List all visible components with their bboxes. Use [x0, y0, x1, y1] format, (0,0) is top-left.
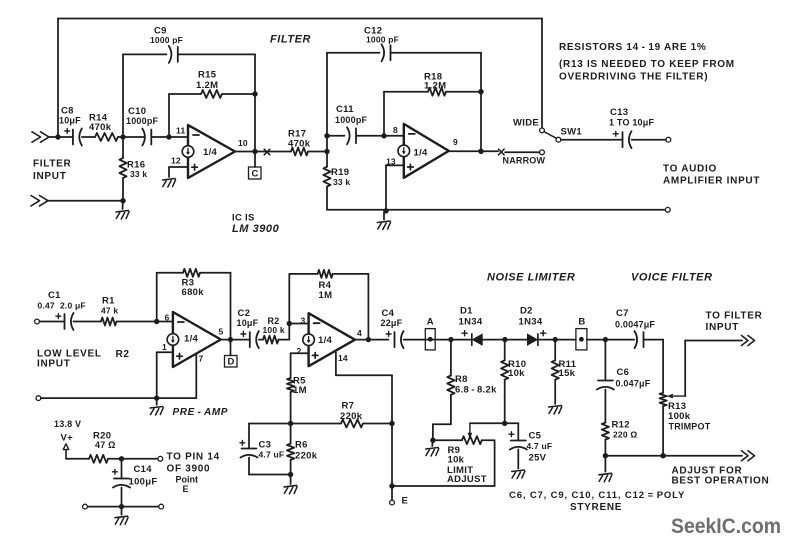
svg-text:1: 1: [162, 342, 167, 352]
svg-text:14: 14: [338, 353, 348, 363]
resistor R11 15k: [552, 360, 559, 379]
node R8 branch junction: [448, 337, 453, 342]
wire C10 to op-amp U1 pin 11: [151, 136, 188, 138]
svg-text:ADJUST: ADJUST: [447, 474, 487, 485]
wire R3 right: [200, 272, 231, 274]
svg-text:1000pF: 1000pF: [126, 116, 159, 126]
resistor R18 1.2M: [428, 88, 446, 96]
wire U1 pin 12 input: [169, 166, 188, 168]
capacitor C14 100uF: [113, 469, 131, 487]
wire node to C6: [604, 340, 606, 381]
svg-text:STYRENE: STYRENE: [570, 502, 622, 513]
ground below C5: [512, 470, 525, 479]
svg-text:VOICE FILTER: VOICE FILTER: [631, 272, 713, 284]
node R13/output rail junction: [660, 453, 665, 458]
wire filter input to C8: [48, 136, 73, 138]
resistor R6 220k: [287, 444, 294, 460]
wire R18 feedback left vertical: [383, 92, 385, 133]
svg-text:LM 3900: LM 3900: [232, 223, 280, 235]
terminal SW1 common: [556, 137, 561, 142]
wire C6 to R12: [604, 390, 606, 423]
svg-text:12: 12: [171, 156, 181, 166]
wire R4 vertical to output node: [367, 274, 369, 340]
wire C14 bottom: [121, 488, 123, 507]
node R11 branch junction: [553, 337, 558, 342]
capacitor C1 0.47-2.0uF: [56, 313, 74, 330]
svg-text:470k: 470k: [288, 139, 311, 150]
resistor R1 47k: [101, 318, 117, 326]
svg-text:WIDE: WIDE: [513, 117, 539, 128]
svg-text:R7: R7: [342, 401, 355, 412]
wire R16 to lower input line: [122, 178, 124, 201]
svg-text:6.8 - 8.2k: 6.8 - 8.2k: [455, 384, 497, 395]
diode D1 1N34: [472, 334, 483, 345]
wire R3 feedback left vertical: [156, 273, 158, 322]
wire R12 bottom: [604, 440, 606, 456]
wire R18 right: [446, 91, 481, 93]
node C11 branch junction: [324, 133, 329, 138]
wire R5 to R6 junction: [290, 392, 292, 424]
node A test point box: [425, 329, 435, 350]
capacitor C2 10uF: [241, 331, 259, 348]
svg-text:1.2M: 1.2M: [196, 80, 218, 91]
svg-text:47 Ω: 47 Ω: [95, 440, 116, 450]
svg-text:AMPLIFIER INPUT: AMPLIFIER INPUT: [663, 175, 760, 186]
wire down to R9 left terminal: [432, 424, 434, 440]
wire preamp output to C2: [221, 339, 250, 341]
wire SW1 to C13: [561, 139, 623, 141]
wire R6 bottom: [290, 460, 292, 475]
svg-text:C: C: [252, 168, 259, 179]
ground below C14: [115, 516, 128, 525]
wire down to C14: [121, 459, 123, 479]
svg-text:D: D: [228, 357, 235, 368]
wire R17 to stage-2 node: [308, 151, 327, 153]
node R18/C12 junction: [478, 89, 483, 94]
svg-text:1000 pF: 1000 pF: [366, 35, 399, 45]
wire C12 loop left: [327, 52, 380, 54]
node pin13/bottom rail junction: [383, 208, 388, 213]
op-amp U1b 1/4 LM3900: [398, 124, 449, 178]
wire left vertical from top loop to filter input node: [57, 19, 59, 138]
node B test point box: [576, 329, 587, 350]
terminal SW1 WIDE: [540, 128, 545, 133]
wire node to R16: [122, 137, 124, 158]
wire R4 feedback left vertical: [288, 274, 290, 324]
svg-text:R2: R2: [116, 349, 130, 360]
node U1 output/feedback junction: [252, 149, 257, 154]
svg-text:220k: 220k: [295, 451, 318, 462]
svg-text:FILTER: FILTER: [270, 34, 311, 46]
svg-text:10k: 10k: [508, 368, 525, 379]
potentiometer R9 10k body: [462, 436, 482, 444]
wire supply ground rail: [88, 506, 159, 508]
svg-text:1000 pF: 1000 pF: [150, 35, 183, 45]
wire C9 to right vertical: [178, 53, 255, 55]
arrows adjust for best operation: [742, 451, 755, 461]
terminal to audio amplifier: [666, 137, 671, 142]
node U1b output/feedback junction: [478, 149, 483, 154]
op-amp U1c 1/4 LM3900 pre-amp: [167, 312, 221, 367]
node C6 branch junction: [603, 337, 608, 342]
resistor R12 220 ohm: [602, 423, 609, 440]
svg-text:13: 13: [386, 157, 396, 167]
op-amp U1d 1/4 LM3900: [303, 313, 355, 366]
svg-text:5: 5: [219, 327, 224, 337]
node C test point box: [249, 167, 262, 179]
wire input to C1: [40, 321, 65, 323]
terminal SW1 NARROW: [540, 150, 545, 155]
capacitor C9 1000pF: [169, 46, 178, 63]
node x mark on U1b output: [499, 149, 505, 155]
resistor R2 100k: [263, 336, 279, 344]
wire R9 wiper to R10 bottom: [470, 422, 505, 424]
svg-text:C14: C14: [134, 464, 153, 475]
capacitor C3 4.7uF: [240, 440, 258, 457]
svg-text:11: 11: [176, 126, 185, 136]
svg-text:1000pF: 1000pF: [335, 115, 368, 125]
node R20/C14 junction: [119, 456, 124, 461]
svg-text:220k: 220k: [340, 411, 363, 422]
wire C9 loop top left: [123, 53, 167, 55]
wire node to R8: [450, 340, 452, 376]
wire C13 to audio output terminal: [632, 139, 666, 141]
svg-text:3: 3: [301, 316, 306, 326]
polarity + of D1: [462, 332, 467, 334]
svg-text:47 k: 47 k: [101, 306, 118, 316]
wire C5 bottom: [517, 450, 519, 469]
wire pin2 down to R5: [290, 353, 292, 378]
svg-text:TRIMPOT: TRIMPOT: [669, 421, 711, 431]
wire R4 left: [289, 273, 317, 275]
svg-text:7: 7: [199, 354, 204, 364]
wire C3 branch top: [249, 423, 291, 425]
svg-text:INPUT: INPUT: [706, 322, 740, 333]
svg-text:INPUT: INPUT: [37, 358, 71, 369]
wire U1d pin 14 down: [335, 353, 337, 376]
wire pin13 vertical to bottom rail: [385, 165, 387, 211]
svg-text:C1: C1: [48, 290, 61, 301]
node R16/input ground junction: [120, 198, 125, 203]
diode D2 1N34: [527, 334, 538, 345]
wire node to R11: [554, 340, 556, 361]
wire junction to C5: [505, 422, 519, 424]
wire junction to R7: [291, 423, 341, 425]
svg-text:1/4: 1/4: [318, 335, 333, 346]
svg-text:4.7 uF: 4.7 uF: [527, 441, 553, 451]
node D test point box: [225, 356, 238, 368]
ground at U1 pin 12: [163, 179, 176, 188]
terminal V+ arrow: [63, 444, 69, 450]
wire U1c pin 7 to lower rail: [195, 354, 197, 399]
wire U1d pin 2 input: [291, 352, 309, 354]
svg-text:(R13 IS NEEDED TO KEEP FROM: (R13 IS NEEDED TO KEEP FROM: [559, 59, 735, 70]
svg-text:C6, C7, C9, C10, C11, C12 = PO: C6, C7, C9, C10, C11, C12 = POLY: [509, 490, 685, 501]
wire D2 to box B: [538, 339, 576, 341]
node C14 ground rail junction: [119, 504, 124, 509]
svg-text:C13: C13: [610, 107, 628, 118]
wire to R9 body: [433, 439, 462, 441]
wire R19 to bottom rail: [326, 187, 328, 210]
wire down to C5: [517, 423, 519, 440]
wire R18 left: [384, 91, 428, 93]
wire R9 return to point E rail: [392, 485, 495, 487]
wire R15 feedback left vertical: [168, 94, 170, 134]
node junction R14/C9/R16: [120, 134, 125, 139]
wire feedback vertical to output node: [254, 94, 256, 152]
wire stub to point D box: [230, 340, 232, 356]
wire pin14 horizontal: [336, 374, 392, 376]
wire R9 right vertical down: [494, 440, 496, 486]
resistor R8 6.8-8.2k: [447, 376, 454, 395]
svg-text:8: 8: [393, 125, 398, 135]
svg-text:33 k: 33 k: [130, 169, 147, 179]
wire R13 bottom: [662, 406, 664, 456]
svg-text:1 TO 10μF: 1 TO 10μF: [609, 118, 654, 128]
wire down to C3: [248, 424, 250, 449]
svg-text:C11: C11: [336, 104, 354, 115]
wire to U1d pin 3: [289, 323, 308, 325]
svg-text:R6: R6: [295, 440, 308, 451]
wire node to C11: [327, 135, 345, 137]
wire stub to ground: [121, 507, 123, 515]
node junction C10/R15 feedback: [166, 134, 171, 139]
node R17 output junction: [324, 149, 329, 154]
svg-text:D2: D2: [520, 306, 533, 317]
svg-text:470k: 470k: [89, 122, 112, 133]
svg-text:OF 3900: OF 3900: [167, 464, 211, 475]
wire to ground stub: [122, 201, 125, 209]
capacitor C8 10uF: [65, 129, 82, 146]
resistor R5 1M: [287, 378, 294, 392]
resistor R19 33k: [323, 167, 330, 187]
svg-text:BEST OPERATION: BEST OPERATION: [672, 476, 770, 487]
wire C12/R18 vertical to output node: [480, 53, 482, 152]
svg-text:1/4: 1/4: [414, 148, 429, 159]
svg-text:10: 10: [238, 138, 248, 148]
node C11/R18 feedback junction: [381, 133, 386, 138]
capacitor C6 0.047uF: [597, 381, 614, 390]
svg-text:1M: 1M: [293, 385, 307, 396]
node U1d output/feedback junction: [366, 337, 371, 342]
wire pin14 vertical to point E: [391, 375, 393, 486]
terminal point E: [390, 500, 395, 505]
svg-text:13.8 V: 13.8 V: [54, 419, 81, 429]
node R5/R6/R7/C3 junction: [288, 421, 293, 426]
svg-text:TO PIN 14: TO PIN 14: [167, 451, 220, 462]
svg-text:SW1: SW1: [561, 126, 583, 137]
svg-text:680k: 680k: [182, 287, 205, 298]
terminal low level input (lower): [36, 396, 41, 401]
wire stub to ground: [383, 212, 385, 220]
svg-text:C5: C5: [529, 431, 542, 442]
capacitor C4 22uF: [386, 331, 403, 348]
wire R11 bottom: [554, 380, 556, 404]
wire node to R10: [504, 340, 506, 361]
node R12/output rail junction: [603, 453, 608, 458]
wire U1 output to R17: [235, 151, 291, 153]
wire to filter input output line: [685, 340, 742, 342]
svg-text:220 Ω: 220 Ω: [613, 429, 637, 439]
svg-text:R15: R15: [198, 70, 217, 81]
filter input terminal arrows (lower): [31, 196, 48, 206]
svg-text:RESISTORS 14 - 19 ARE 1%: RESISTORS 14 - 19 ARE 1%: [559, 42, 707, 53]
svg-text:E: E: [402, 496, 409, 507]
svg-text:TO FILTER: TO FILTER: [706, 311, 763, 322]
svg-text:PRE - AMP: PRE - AMP: [173, 407, 229, 418]
wire box B to C7: [587, 339, 634, 341]
svg-text:C7: C7: [616, 308, 629, 319]
wire pin12 to ground: [168, 167, 170, 177]
terminal to pin 14 of 3900: [158, 456, 163, 461]
wire D1 to D2: [482, 339, 527, 341]
wire R13 wiper vertical: [684, 341, 686, 397]
ground below R12: [599, 473, 612, 482]
svg-text:100μF: 100μF: [129, 477, 158, 488]
capacitor C11 1000pF: [347, 127, 356, 144]
wire top feedback loop to SW1 wide: [58, 18, 542, 20]
wire R3 vertical to preamp output: [230, 273, 232, 340]
node ground junction on lower rail: [154, 395, 159, 400]
wire lower filter input: [47, 200, 123, 202]
wire U1b pin 13 input: [386, 164, 404, 166]
wire R2 right: [279, 339, 290, 341]
arrows to filter input: [742, 336, 755, 346]
filter input terminal arrows (upper): [32, 132, 49, 142]
svg-text:0.047μF: 0.047μF: [616, 379, 651, 389]
trimpot R13 100k body: [660, 393, 667, 406]
wire R20 to pin 14 terminal: [108, 458, 158, 460]
svg-text:E: E: [183, 484, 189, 494]
svg-text:25V: 25V: [529, 452, 547, 463]
resistor R16 33k: [119, 158, 126, 178]
wire stub to point C box: [254, 152, 256, 168]
wire pin1 vertical to lower rail: [156, 352, 158, 398]
ground below R6: [284, 485, 297, 494]
svg-text:V+: V+: [61, 433, 74, 444]
terminal open circle bottom return: [665, 207, 670, 212]
svg-text:1N34: 1N34: [519, 317, 543, 328]
node R9 left terminal: [430, 438, 435, 443]
capacitor C12 1000pF: [382, 44, 391, 61]
svg-text:4.7 uF: 4.7 uF: [259, 450, 285, 460]
node D1/D2/R10 junction: [502, 337, 507, 342]
wire to R6 top: [290, 424, 292, 444]
wire stub to ground: [156, 398, 158, 405]
wire U1d output to C4: [355, 339, 389, 341]
svg-text:D1: D1: [460, 306, 473, 317]
trimpot R13 wiper arrow: [673, 395, 684, 397]
wire bottom return rail to output terminal: [327, 209, 666, 211]
svg-text:1/4: 1/4: [184, 334, 199, 345]
wire C11 to U1 pin 8: [356, 135, 404, 137]
svg-text:15k: 15k: [559, 368, 576, 379]
wire R3 left: [157, 272, 183, 274]
ground below filter input: [116, 211, 129, 220]
wire C9 loop right vertical upper: [254, 54, 256, 94]
node filter input junction: [55, 134, 60, 139]
node pin3/R4 feedback junction: [287, 321, 292, 326]
svg-text:INPUT: INPUT: [33, 171, 67, 182]
svg-text:B: B: [578, 317, 585, 328]
svg-text:OVERDRIVING THE FILTER): OVERDRIVING THE FILTER): [559, 71, 708, 82]
svg-text:2: 2: [297, 346, 302, 356]
wire top loop down to SW1 WIDE: [541, 19, 543, 128]
node R6/C3 bottom junction: [288, 472, 293, 477]
resistor R20 47 ohm: [89, 455, 108, 463]
node R10/wiper/C5 junction: [502, 421, 507, 426]
node R1/R3 feedback junction: [154, 319, 159, 324]
svg-text:6: 6: [165, 313, 170, 323]
svg-text:A: A: [427, 317, 434, 328]
svg-text:C6: C6: [617, 367, 630, 378]
wire R2 up to pin 3 node: [288, 324, 290, 340]
switch SW1 arm: [544, 132, 556, 139]
wire x mark to NARROW terminal: [505, 151, 539, 153]
wire stub to ground: [431, 440, 434, 446]
resistor R10 10k: [501, 360, 508, 379]
svg-text:NOISE LIMITER: NOISE LIMITER: [487, 272, 575, 284]
capacitor C13 1 to 10uF: [613, 131, 631, 148]
svg-text:FILTER: FILTER: [33, 159, 72, 170]
svg-text:9: 9: [453, 137, 458, 147]
svg-text:10μF: 10μF: [237, 318, 259, 328]
wire R15 left: [169, 93, 201, 95]
svg-text:1N34: 1N34: [459, 317, 483, 328]
wire V+ to R20: [66, 458, 89, 460]
resistor R7 220k: [341, 420, 363, 428]
wire stub to ground: [290, 475, 292, 485]
terminal supply rail right: [159, 504, 164, 509]
ground below U1b pin 13: [378, 221, 391, 230]
wire C8 to R14: [82, 136, 95, 138]
wire R4 right: [333, 273, 369, 275]
wire R1 to U1c pin 6: [117, 321, 173, 323]
potentiometer R9 wiper arrow: [469, 425, 471, 434]
wire lower input rail: [41, 397, 196, 399]
node R15/C9 junction: [252, 91, 257, 96]
svg-text:22μF: 22μF: [381, 318, 403, 328]
svg-text:100 k: 100 k: [263, 325, 285, 335]
ground below R11: [549, 406, 562, 415]
wire R15 right: [222, 93, 255, 95]
capacitor C7 0.0047uF: [635, 331, 644, 348]
wire C9 loop left vertical: [122, 54, 124, 134]
capacitor C10 1000pF: [142, 129, 151, 146]
svg-text:1.2M: 1.2M: [424, 81, 446, 92]
wire R8 to R9 left: [433, 423, 451, 425]
svg-text:0.0047μF: 0.0047μF: [615, 320, 655, 330]
node point E junction: [389, 483, 394, 488]
capacitor C5 4.7uF 25V: [509, 432, 527, 450]
svg-text:NARROW: NARROW: [503, 156, 546, 166]
op-amp U1a 1/4 LM3900: [182, 125, 235, 178]
terminal supply rail left: [83, 504, 88, 509]
wire down to R13 top: [662, 340, 664, 393]
wire C3 bottom: [248, 458, 250, 475]
resistor R3 680k: [183, 269, 200, 277]
wire R8 bottom: [450, 395, 452, 425]
ground below R9 left: [426, 448, 439, 457]
wire C1 to R1: [74, 321, 101, 323]
svg-text:IC IS: IC IS: [232, 213, 255, 224]
svg-text:0.47 2.0 μF: 0.47 2.0 μF: [38, 301, 86, 311]
wire C4 through box A to D1: [404, 339, 472, 341]
wire to E terminal: [391, 486, 393, 500]
svg-text:SeekIC.com: SeekIC.com: [671, 514, 781, 538]
wire adjust output rail: [605, 455, 742, 457]
node x mark on U1 output: [264, 149, 270, 155]
